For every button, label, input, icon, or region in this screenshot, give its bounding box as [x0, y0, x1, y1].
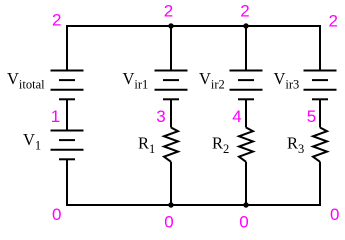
svg-text:0: 0 [52, 205, 61, 224]
svg-text:0: 0 [164, 213, 173, 232]
battery Vir2 [230, 71, 263, 100]
wire branch1 top drop [66, 25, 68, 71]
svg-text:3: 3 [156, 107, 165, 126]
wire branch2 top drop [170, 25, 172, 71]
wire node 4 [245, 99, 247, 127]
battery Vir1 [155, 71, 188, 100]
wire node 3 [170, 99, 172, 127]
wire branch4 top drop [319, 25, 321, 71]
svg-text:1: 1 [51, 107, 60, 126]
junction top branch2 [168, 23, 173, 28]
resistor R3 [313, 128, 327, 162]
svg-text:2: 2 [240, 2, 249, 21]
svg-text:2: 2 [329, 12, 338, 31]
battery Vitotal [51, 71, 84, 100]
svg-text:4: 4 [232, 107, 241, 126]
svg-text:5: 5 [307, 107, 316, 126]
wire bottom rail node 0 [66, 204, 321, 206]
junction bottom branch2 [168, 202, 173, 207]
wire branch1 bottom [66, 159, 68, 206]
resistor R2 [239, 128, 253, 162]
svg-text:2: 2 [164, 2, 173, 21]
svg-text:2: 2 [52, 11, 61, 30]
resistor R1 [164, 128, 178, 162]
wire node 5 [319, 99, 321, 127]
wire branch3 top drop [245, 25, 247, 71]
junction top branch3 [243, 23, 248, 28]
svg-text:0: 0 [239, 213, 248, 232]
wire branch3 bottom [245, 162, 247, 206]
battery V1 [51, 131, 84, 160]
battery Vir3 [304, 71, 337, 100]
wire branch4 bottom [319, 162, 321, 206]
wire branch2 bottom [170, 162, 172, 206]
svg-text:0: 0 [330, 205, 339, 224]
wire top rail node 2 [66, 25, 321, 27]
wire node 1 [66, 99, 68, 130]
junction bottom branch3 [243, 202, 248, 207]
